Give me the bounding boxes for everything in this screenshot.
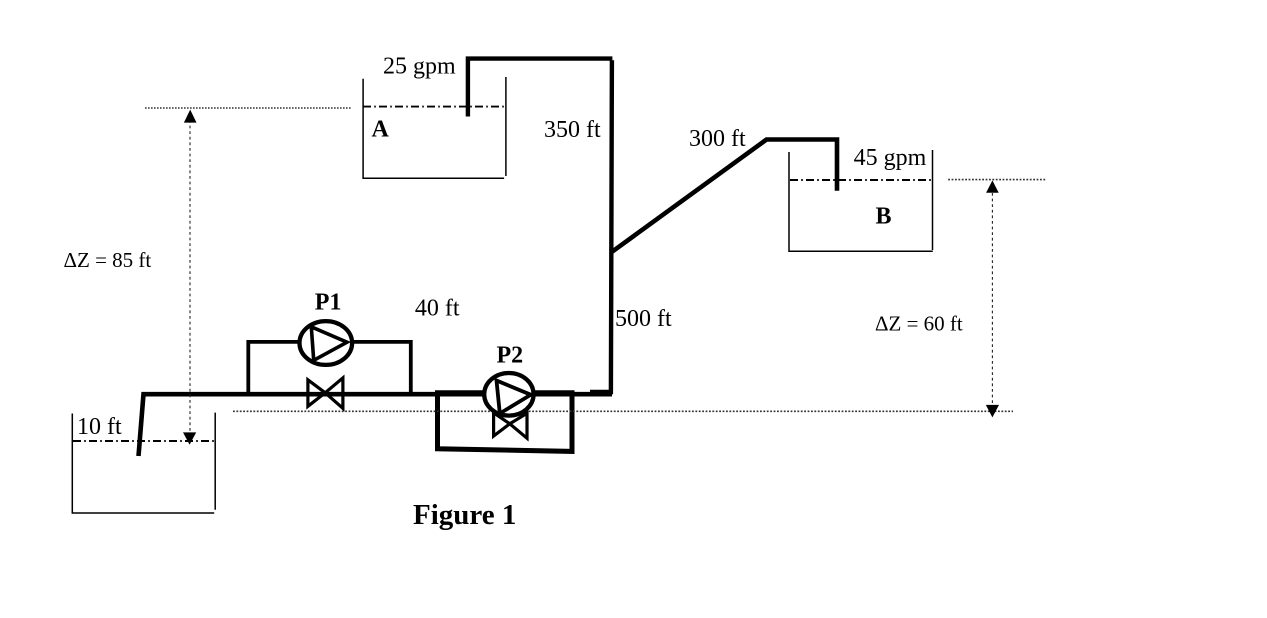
- svg-text:45 gpm: 45 gpm: [854, 145, 927, 171]
- svg-text:B: B: [876, 204, 892, 230]
- pump P2: [484, 373, 533, 416]
- svg-text:350 ft: 350 ft: [544, 117, 601, 143]
- dotted datum line top-left (tank A level): [145, 107, 352, 109]
- tank B liquid level dash-dot: [790, 179, 932, 181]
- svg-text:Figure 1: Figure 1: [413, 499, 516, 531]
- tank lower-left liquid level dash-dot: [73, 440, 215, 442]
- tank A: [363, 77, 506, 178]
- dimension arrow dZ=85 vertical dashed: [183, 110, 197, 445]
- tank A liquid level dash-dot: [363, 106, 504, 108]
- wire P1 bypass loop: [248, 342, 410, 395]
- wire riser pipe 350/500 ft: [590, 60, 612, 392]
- valve under P1: [308, 378, 343, 408]
- svg-text:25 gpm: 25 gpm: [383, 54, 456, 80]
- svg-text:10 ft: 10 ft: [77, 414, 122, 440]
- svg-text:ΔZ = 85 ft: ΔZ = 85 ft: [64, 248, 152, 272]
- pump P1: [300, 321, 353, 365]
- wire pipe from tank A: down-leg and top run: [468, 59, 613, 117]
- tank B: [789, 150, 933, 251]
- svg-text:500 ft: 500 ft: [615, 306, 672, 332]
- svg-text:40 ft: 40 ft: [415, 296, 460, 322]
- svg-text:ΔZ = 60 ft: ΔZ = 60 ft: [875, 312, 963, 336]
- dotted datum line bottom (pump level): [233, 410, 1013, 412]
- dotted datum line top-right (tank B level): [948, 179, 1046, 181]
- svg-text:P1: P1: [315, 290, 342, 316]
- valve under P2: [494, 413, 527, 438]
- svg-text:300 ft: 300 ft: [689, 126, 746, 152]
- dimension arrow dZ=60 vertical dashed: [986, 180, 999, 417]
- wire main bottom horizontal pipe: [139, 394, 613, 456]
- wire P2 bypass loop: [438, 393, 573, 452]
- svg-text:P2: P2: [497, 343, 524, 369]
- tank lower-left: [72, 413, 215, 513]
- svg-text:A: A: [372, 117, 390, 143]
- wire diagonal pipe 300 ft into tank B: [611, 140, 837, 253]
